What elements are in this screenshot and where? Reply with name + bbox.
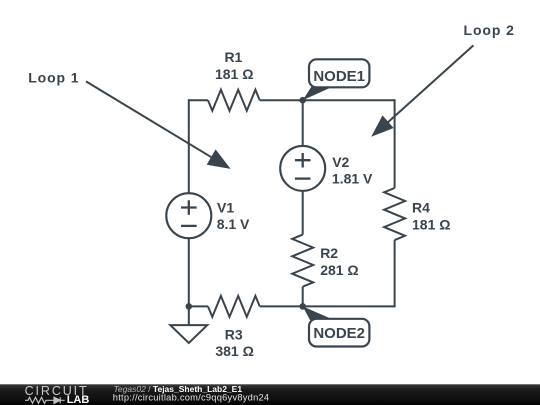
wire left vertical upper [188, 99, 190, 193]
svg-text:1.81 V: 1.81 V [332, 171, 373, 187]
resistor R1 [208, 90, 260, 111]
annotation Loop 1 arrowhead [207, 149, 231, 169]
svg-text:NODE1: NODE1 [313, 68, 365, 85]
wire middle vertical top [302, 100, 304, 146]
ground stem wire [188, 306, 190, 325]
svg-text:Loop 1: Loop 1 [28, 69, 79, 85]
annotation Loop 2 arrowhead [371, 115, 393, 136]
node NODE1 label box [309, 59, 369, 87]
annotation Loop 2 arrow line [386, 45, 473, 124]
wire middle vertical bottom [302, 287, 304, 307]
node junction dot at NODE2 [299, 303, 306, 310]
svg-text:8.1 V: 8.1 V [217, 216, 250, 232]
node junction dot at ground [186, 303, 193, 310]
resistor R4 [384, 188, 405, 240]
wire top-right horizontal segment [260, 99, 395, 101]
wire right vertical upper [394, 99, 396, 188]
voltage source V2 [280, 146, 325, 191]
svg-text:R3: R3 [225, 326, 243, 342]
svg-text:LAB: LAB [67, 394, 90, 405]
svg-text:381 Ω: 381 Ω [215, 343, 253, 359]
node NODE2 callout pointer [303, 306, 334, 320]
svg-text:http://circuitlab.com/c9qq6yv8: http://circuitlab.com/c9qq6yv8ydn24 [113, 392, 270, 402]
wire top-left horizontal segment [189, 99, 208, 101]
voltage source V1 [166, 193, 211, 238]
resistor R3 [208, 296, 260, 317]
ground symbol [170, 325, 207, 343]
svg-text:181 Ω: 181 Ω [412, 217, 450, 233]
svg-text:281 Ω: 281 Ω [320, 262, 358, 278]
svg-text:R2: R2 [320, 245, 338, 261]
node NODE1 callout pointer [303, 87, 333, 101]
svg-text:V1: V1 [217, 199, 234, 215]
node NODE2 label box [309, 319, 369, 347]
wire middle vertical between V2 and R2 [302, 191, 304, 235]
footer logo resistor-diode glyph [25, 397, 65, 403]
wire bottom-left horizontal segment [189, 305, 208, 307]
svg-text:Loop 2: Loop 2 [464, 22, 515, 38]
footer bar [0, 384, 540, 405]
wire bottom-right horizontal segment [260, 305, 396, 307]
wire right vertical lower [394, 240, 396, 306]
svg-text:R1: R1 [224, 49, 242, 65]
svg-text:V2: V2 [332, 154, 349, 170]
svg-text:181 Ω: 181 Ω [215, 66, 253, 82]
wire left vertical lower [188, 238, 190, 306]
resistor R2 [292, 235, 313, 287]
node junction dot at NODE1 [299, 97, 306, 104]
annotation Loop 1 arrow line [86, 81, 213, 158]
svg-text:NODE2: NODE2 [313, 325, 365, 342]
svg-text:R4: R4 [412, 199, 430, 215]
